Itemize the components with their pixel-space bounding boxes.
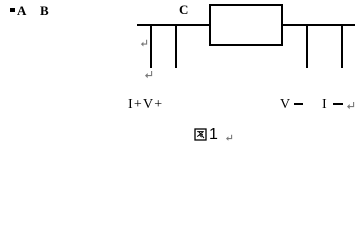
wire: left horizontal bus	[137, 24, 209, 26]
caption text 1	[209, 127, 218, 143]
terminal label V-	[280, 98, 290, 112]
caption glyph 图	[194, 128, 207, 141]
line-break mark 3	[346, 101, 356, 111]
bullet marker	[10, 8, 15, 12]
line-break mark 4	[225, 134, 234, 143]
wire: vertical lead 3 (V-)	[306, 25, 308, 68]
node B label	[40, 4, 49, 17]
line-break mark 1	[140, 39, 149, 48]
terminal label I-	[322, 98, 327, 112]
wire: vertical lead 4 (I-)	[341, 25, 343, 68]
node A label	[17, 4, 26, 17]
minus of V-	[294, 103, 303, 105]
wire: vertical lead 2 (V+)	[175, 25, 177, 68]
node C label	[179, 3, 188, 16]
wire: vertical lead 1 (I+)	[150, 25, 152, 68]
line-break mark 2	[144, 70, 154, 80]
wire: right horizontal bus	[283, 24, 355, 26]
minus of I-	[333, 103, 343, 105]
terminal label I+V+	[128, 98, 163, 112]
component box U1	[209, 4, 283, 46]
